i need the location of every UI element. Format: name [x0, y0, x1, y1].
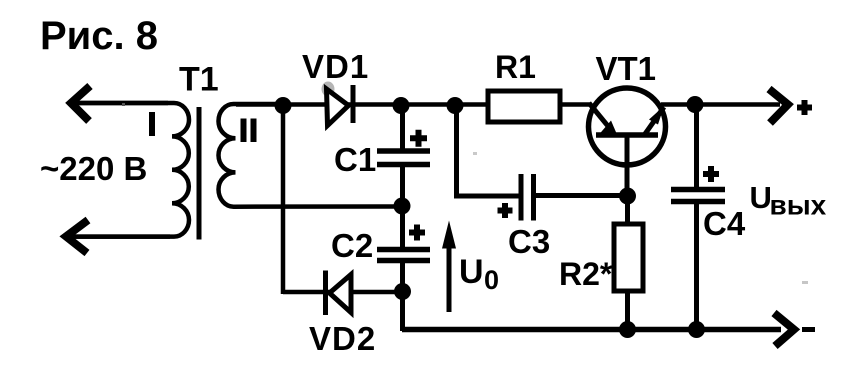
- winding label I: [149, 112, 155, 136]
- node collector / C4 top: [687, 96, 704, 113]
- output arrow top plus: [769, 89, 812, 123]
- scan speck top wire: [122, 103, 125, 106]
- node R2 bottom rail: [619, 321, 636, 338]
- diode VD2: [326, 271, 352, 316]
- top rail wire left part: [283, 102, 590, 107]
- wire R2 down to rail: [625, 291, 630, 330]
- svg-text:C1: C1: [334, 141, 376, 178]
- output arrow bottom minus: [774, 313, 815, 346]
- node at secondary top: [275, 97, 292, 114]
- input terminal arrow bottom: [66, 220, 170, 253]
- input terminal arrow top: [70, 86, 168, 121]
- svg-text:T1: T1: [179, 61, 219, 99]
- svg-text:R2*: R2*: [559, 256, 613, 292]
- svg-text:VT1: VT1: [596, 50, 657, 87]
- plus sign C3: [498, 203, 513, 218]
- svg-text:U: U: [459, 253, 484, 291]
- svg-text:~220 В: ~220 В: [40, 150, 147, 187]
- transistor VT1: [589, 88, 666, 197]
- transformer core: [197, 107, 202, 240]
- winding label II: [241, 119, 247, 143]
- node at R1 branch: [447, 97, 464, 114]
- wire secondary top to rail: [236, 102, 290, 107]
- top rail wire right part: [661, 102, 780, 107]
- capacitor C3: [521, 174, 629, 221]
- resistor R2: [614, 224, 643, 291]
- scan speck right: [802, 281, 808, 284]
- svg-text:VD1: VD1: [302, 48, 369, 85]
- scan speck near R1: [473, 152, 477, 155]
- capacitor C2: [377, 206, 430, 292]
- scan smudge near VD1: [322, 82, 335, 97]
- svg-text:вых: вых: [770, 190, 827, 221]
- node C1 top: [393, 97, 410, 114]
- svg-text:0: 0: [484, 265, 499, 295]
- wire VD2 branch horizontal: [283, 290, 403, 295]
- svg-text:C4: C4: [703, 205, 746, 242]
- node C2 bottom / VD2: [394, 283, 411, 300]
- wire base node down to R2: [625, 196, 630, 226]
- wire C2 node down to bottom rail: [400, 291, 405, 331]
- transformer primary winding I: [70, 103, 189, 237]
- plus sign C1: [410, 130, 427, 147]
- node base: [619, 188, 636, 205]
- transformer secondary winding II: [218, 104, 403, 207]
- plus sign C2: [409, 225, 425, 241]
- bottom rail wire: [402, 327, 781, 333]
- arrow U0: [442, 221, 456, 313]
- resistor R1: [488, 91, 560, 122]
- svg-text:VD2: VD2: [309, 320, 376, 357]
- svg-text:C2: C2: [331, 227, 373, 264]
- plus sign C4: [703, 166, 719, 182]
- diode VD1: [327, 85, 354, 126]
- svg-text:Рис. 8: Рис. 8: [40, 14, 158, 58]
- capacitor C1: [377, 105, 430, 206]
- node C4 bottom rail: [688, 321, 705, 338]
- capacitor C4: [671, 104, 725, 330]
- node C1/C2 junction: [394, 198, 411, 215]
- svg-text:R1: R1: [495, 49, 536, 85]
- svg-text:C3: C3: [508, 223, 550, 260]
- wire down from node to VD2 branch: [281, 105, 286, 294]
- wire node down to C3: [457, 105, 520, 196]
